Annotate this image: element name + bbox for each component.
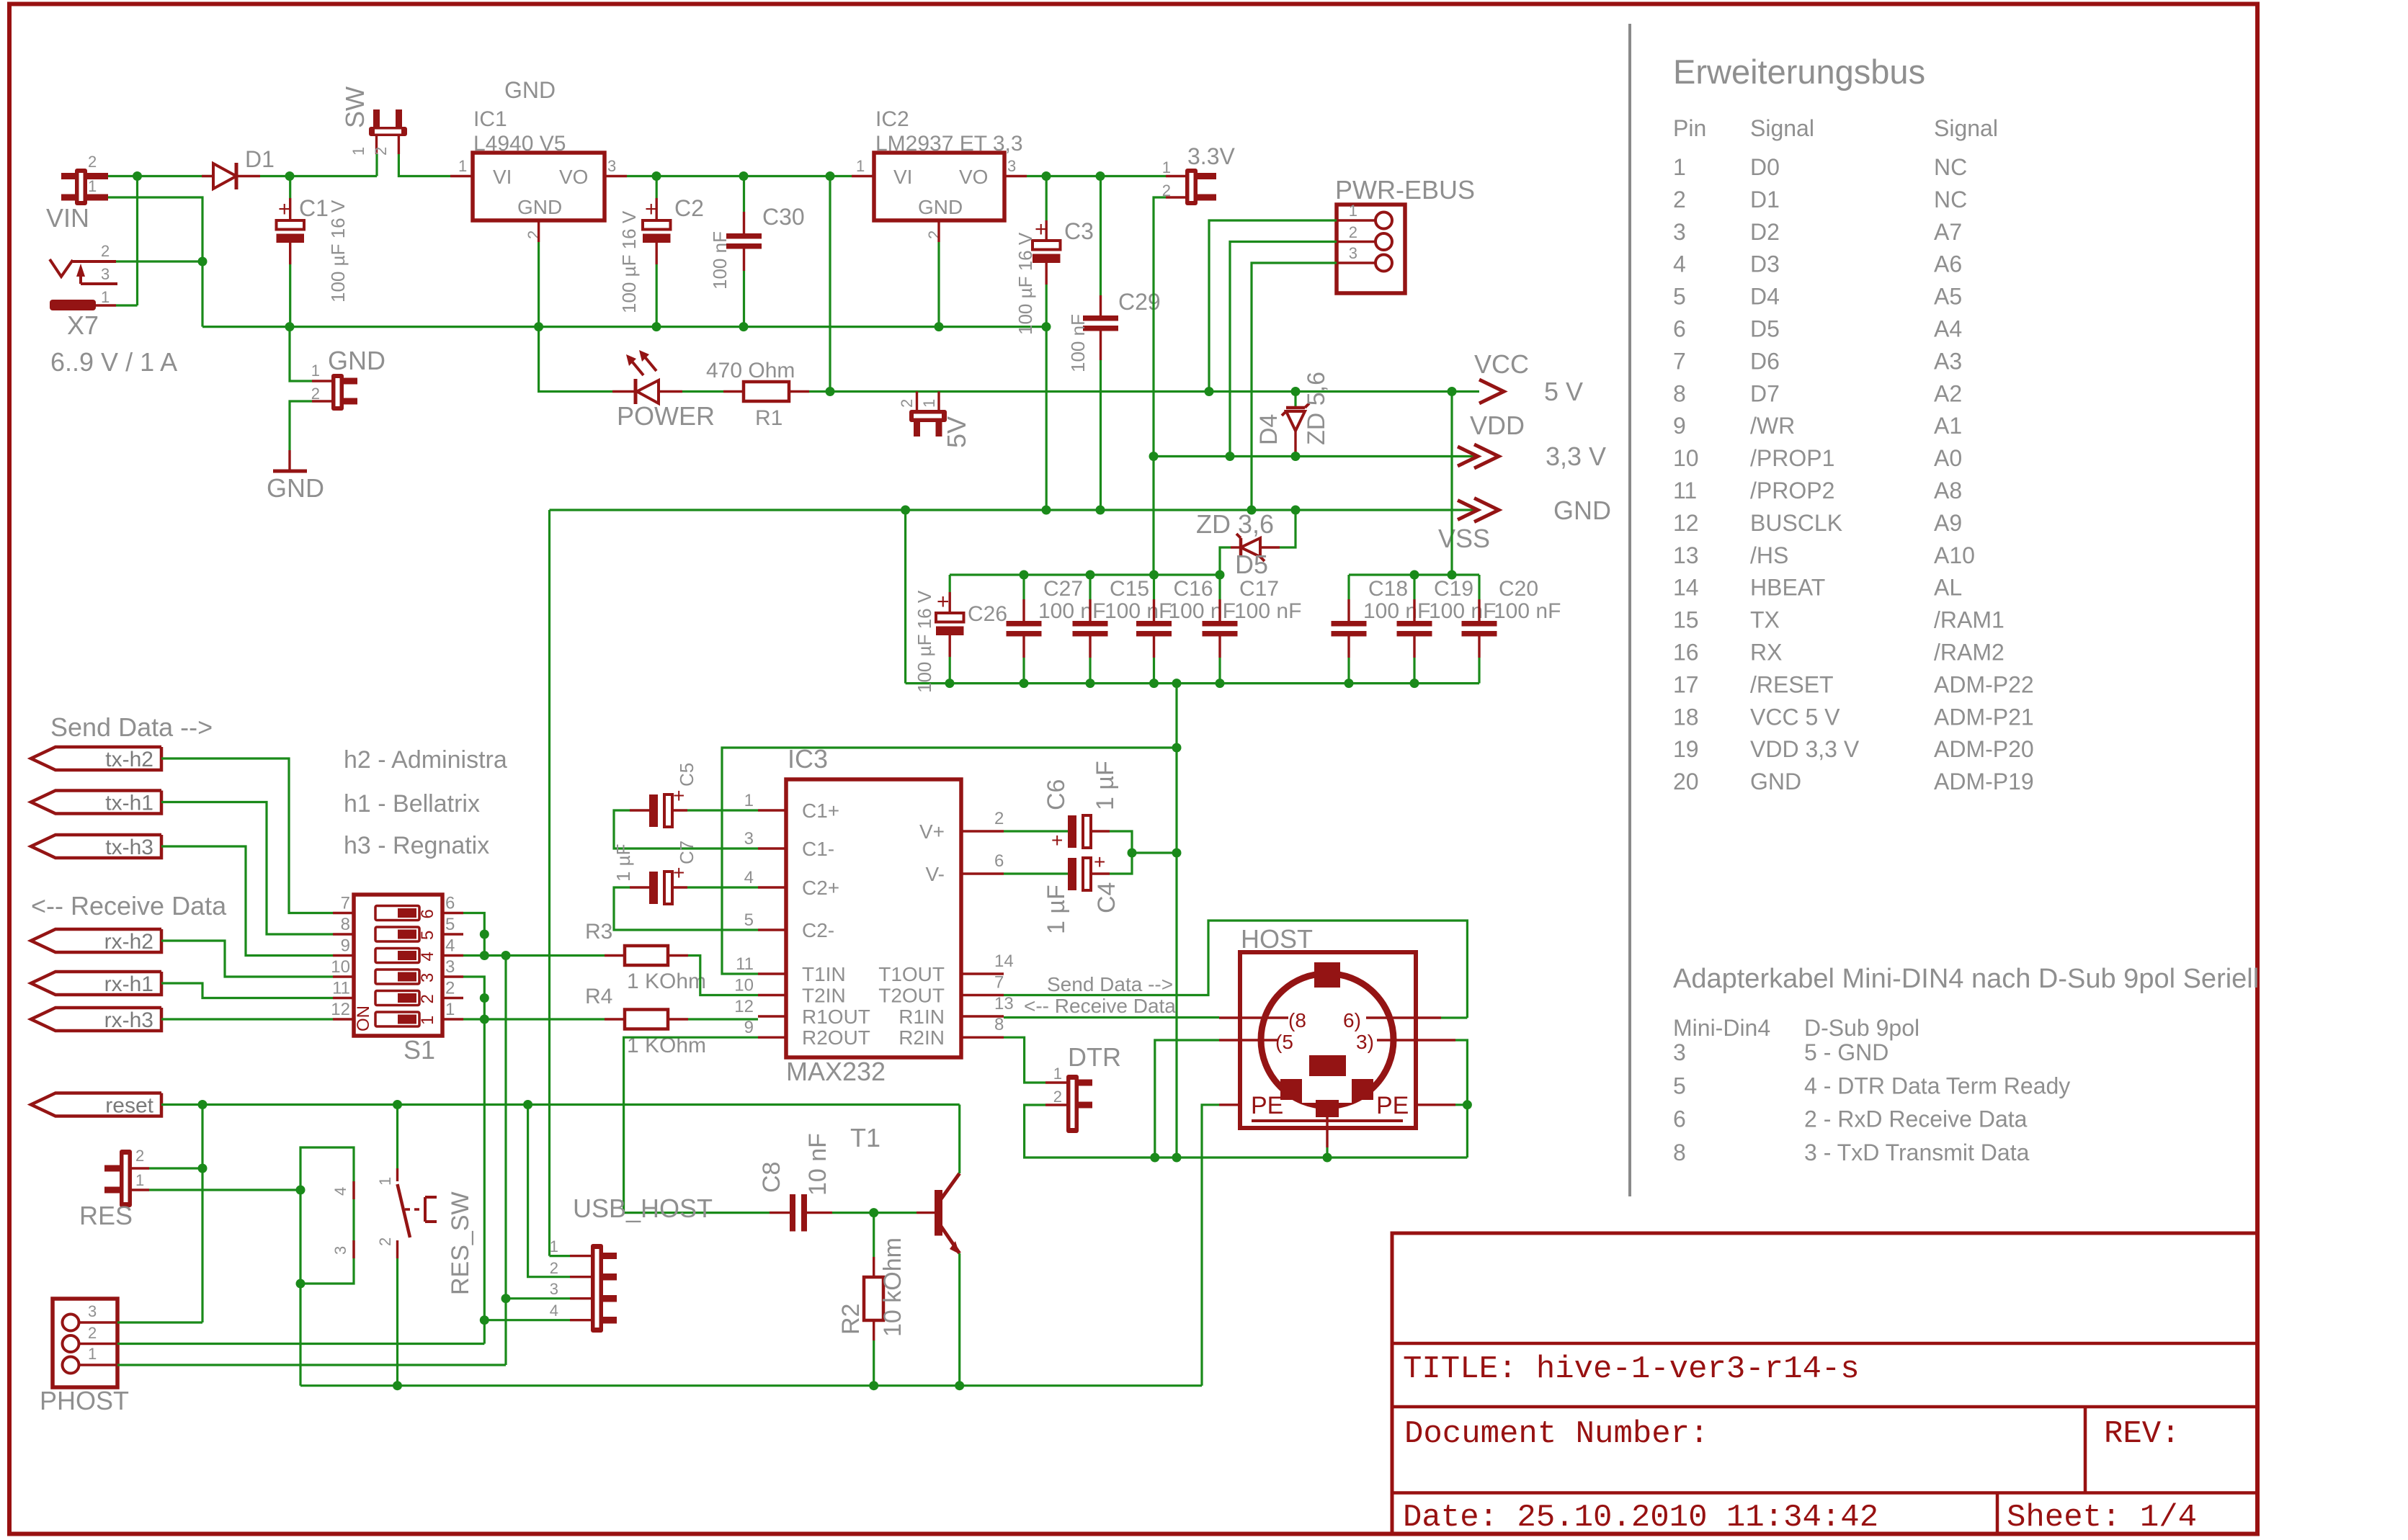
svg-text:C1+: C1+: [802, 800, 839, 822]
title block REV divider: [2084, 1407, 2087, 1493]
wire LED to R1: [682, 390, 723, 393]
svg-text:D5: D5: [1750, 316, 1780, 342]
svg-text:C17: C17: [1239, 577, 1279, 601]
svg-text:3: 3: [101, 265, 110, 283]
svg-text:C19: C19: [1434, 577, 1473, 601]
HOST bottom left pad: [1280, 1079, 1302, 1100]
node C29 top junction: [1096, 171, 1105, 181]
node V+ V- mid junction: [1128, 849, 1137, 858]
svg-text:5: 5: [1673, 284, 1686, 310]
node C3 rail junction: [1042, 322, 1051, 331]
svg-text:1: 1: [349, 147, 367, 156]
svg-text:8: 8: [1673, 380, 1686, 406]
resistor R1 470 Ohm: [723, 390, 744, 393]
svg-text:3: 3: [445, 957, 455, 977]
svg-text:C5: C5: [676, 763, 697, 787]
svg-text:HOST: HOST: [1241, 924, 1313, 954]
svg-text:1 µF: 1 µF: [1092, 761, 1119, 810]
capacitor C4 1uF: [1004, 872, 1068, 874]
net flag tx-h2: [31, 747, 161, 770]
IC2 pin 2 wire to GND rail: [937, 220, 940, 242]
svg-text:1: 1: [88, 177, 97, 195]
wire R2 top: [873, 1213, 875, 1257]
node X7 pin2 junction: [198, 257, 208, 267]
node cap top junction x1421: [1020, 570, 1029, 580]
svg-text:C8: C8: [758, 1162, 785, 1193]
svg-text:5 - GND: 5 - GND: [1804, 1039, 1889, 1065]
svg-text:100 µF 16 V: 100 µF 16 V: [1015, 232, 1036, 335]
svg-text:R1IN: R1IN: [898, 1006, 945, 1028]
svg-text:RES: RES: [79, 1201, 133, 1230]
wire DTR pin2 to GND: [1025, 1105, 1155, 1158]
svg-text:VI: VI: [893, 166, 912, 188]
svg-text:3: 3: [1673, 219, 1686, 245]
svg-text:rx-h1: rx-h1: [104, 972, 153, 996]
svg-text:3: 3: [418, 973, 437, 982]
node VIN-D1 junction: [133, 171, 142, 181]
svg-text:IC1: IC1: [473, 107, 507, 131]
svg-text:h3 - Regnatix: h3 - Regnatix: [344, 832, 489, 859]
svg-text:2: 2: [135, 1147, 144, 1165]
wire tx-h1 to S1 pin8: [161, 802, 333, 935]
node PWR-EBUS pin2 junction: [1226, 452, 1235, 461]
svg-text:2: 2: [1673, 187, 1686, 212]
svg-text:9: 9: [341, 936, 350, 956]
net flag reset: [31, 1093, 161, 1116]
svg-text:1: 1: [418, 1016, 437, 1025]
svg-text:Date: 25.10.2010 11:34:42: Date: 25.10.2010 11:34:42: [1403, 1500, 1878, 1536]
svg-text:+: +: [278, 197, 291, 221]
IC3 pin 14 T1OUT: [961, 972, 1004, 975]
connector RES: [104, 1165, 120, 1172]
svg-text:+: +: [1094, 851, 1105, 873]
svg-text:RX: RX: [1750, 640, 1782, 666]
svg-text:5 V: 5 V: [1544, 377, 1583, 406]
net flag rx-h3: [31, 1008, 161, 1031]
capacitor C30 100nF: [726, 233, 762, 239]
svg-text:3: 3: [1349, 244, 1357, 262]
connector PHOST: [53, 1299, 117, 1387]
svg-text:VDD 3,3 V: VDD 3,3 V: [1750, 736, 1860, 762]
svg-text:11: 11: [736, 954, 754, 974]
node T1 base junction: [869, 1208, 878, 1217]
svg-text:5: 5: [418, 931, 437, 940]
svg-text:A3: A3: [1934, 348, 1962, 374]
node HOST pin3 PE junction: [1463, 1100, 1472, 1109]
svg-text:100 nF: 100 nF: [1363, 599, 1430, 623]
wire PHOST pin1: [117, 1364, 506, 1366]
svg-text:3: 3: [331, 1246, 349, 1255]
svg-text:BUSCLK: BUSCLK: [1750, 510, 1842, 536]
svg-text:Signal: Signal: [1934, 115, 1998, 141]
svg-text:DTR: DTR: [1068, 1042, 1121, 1072]
svg-text:D4: D4: [1750, 284, 1780, 310]
svg-text:PE: PE: [1251, 1092, 1283, 1119]
svg-text:3): 3): [1356, 1031, 1374, 1053]
HOST bottom right pad: [1352, 1079, 1373, 1100]
node T1IN GND junction: [1172, 743, 1182, 753]
IC3 pin 13 R1IN: [961, 1015, 1004, 1017]
title block row line 3: [1392, 1491, 2257, 1495]
svg-text:2: 2: [1053, 1088, 1062, 1106]
svg-text:Signal: Signal: [1750, 115, 1814, 141]
LED POWER: [612, 390, 636, 393]
svg-text:C18: C18: [1368, 577, 1408, 601]
cap bank bottom GND rail: [906, 682, 1479, 684]
svg-text:(5: (5: [1275, 1031, 1293, 1053]
svg-text:5: 5: [445, 915, 455, 934]
wire IC1 out to IC2 in: [627, 175, 852, 177]
svg-text:C20: C20: [1499, 577, 1538, 601]
wire HOST pin5 to GND: [1155, 1040, 1219, 1158]
svg-text:ZD 5,6: ZD 5,6: [1303, 372, 1330, 445]
svg-text:R1OUT: R1OUT: [802, 1006, 870, 1028]
wire R3 to T2IN: [688, 956, 758, 995]
wire C6 to junction: [1110, 831, 1132, 853]
svg-text:2: 2: [418, 994, 437, 1003]
svg-text:/RESET: /RESET: [1750, 671, 1834, 697]
HOST top notch: [1314, 962, 1340, 988]
svg-text:100 µF 16 V: 100 µF 16 V: [327, 200, 349, 303]
svg-text:C16: C16: [1174, 577, 1213, 601]
svg-text:8: 8: [1673, 1140, 1686, 1165]
svg-text:A7: A7: [1934, 219, 1962, 245]
title block sheet divider: [1996, 1493, 1999, 1534]
node right cap group junction C19: [1410, 570, 1419, 580]
separator line: [1628, 24, 1631, 1196]
svg-text:A5: A5: [1934, 284, 1962, 310]
svg-text:RES_SW: RES_SW: [447, 1191, 474, 1295]
wire S1 tx common pins 6-5-4: [463, 913, 484, 956]
IC3 pin 10 T2IN: [758, 994, 786, 996]
svg-text:MAX232: MAX232: [786, 1057, 886, 1086]
wire LED anode from GND rail: [539, 327, 612, 392]
capacitor C6 1uF: [1004, 830, 1068, 832]
svg-text:6: 6: [1673, 1106, 1686, 1132]
HOST PE underline: [1252, 1119, 1403, 1122]
net flag tx-h3: [31, 835, 161, 858]
svg-text:VO: VO: [959, 166, 988, 188]
supply pin 5V: [916, 392, 918, 411]
wire S1 pin4 to R3: [463, 954, 605, 957]
svg-text:GND: GND: [517, 196, 562, 218]
HOST DIN ring: [1261, 974, 1393, 1106]
IC2 pin1 stub: [852, 175, 874, 177]
transistor T1: [874, 1212, 917, 1214]
svg-text:<-- Receive Data: <-- Receive Data: [1024, 995, 1176, 1017]
wire USB pin4: [484, 1319, 570, 1321]
svg-text:VIN: VIN: [46, 203, 89, 233]
wire PE bus down to GND horizontal: [1466, 1105, 1468, 1158]
svg-text:2: 2: [898, 399, 916, 408]
node cap bottom junction x1513: [1086, 679, 1095, 688]
node GND horizontal junction 1842: [1323, 1153, 1332, 1163]
svg-text:Adapterkabel Mini-DIN4 nach D-: Adapterkabel Mini-DIN4 nach D-Sub 9pol S…: [1673, 964, 2259, 994]
node R2 GND junction: [869, 1381, 878, 1390]
node GND horizontal junction 1633: [1172, 1153, 1182, 1163]
HOST pin6 line: [1366, 1016, 1441, 1019]
HOST pin8 line: [1219, 1016, 1288, 1019]
svg-text:5: 5: [1673, 1073, 1686, 1098]
svg-text:10: 10: [331, 957, 350, 977]
svg-text:TITLE: hive-1-ver3-r14-s: TITLE: hive-1-ver3-r14-s: [1403, 1351, 1860, 1387]
svg-text:R2: R2: [837, 1304, 865, 1335]
ground symbol: [288, 450, 290, 471]
svg-text:4 - DTR Data Term Ready: 4 - DTR Data Term Ready: [1804, 1073, 2070, 1098]
svg-text:1 µF: 1 µF: [612, 843, 634, 882]
svg-text:+: +: [1051, 829, 1063, 851]
svg-text:1: 1: [376, 1177, 394, 1186]
svg-text:16: 16: [1673, 640, 1699, 666]
svg-text:17: 17: [1673, 671, 1699, 697]
svg-text:h1 - Bellatrix: h1 - Bellatrix: [344, 790, 480, 818]
wire R2OUT down to C8: [624, 1037, 770, 1212]
svg-text:6: 6: [1673, 316, 1686, 342]
node VDD junction at 1601: [1149, 452, 1159, 461]
node PWR-EBUS pin1 junction: [1205, 387, 1214, 396]
GND horizontal under HOST: [1155, 1156, 1468, 1158]
IC1 pin3 stub: [605, 175, 627, 177]
svg-text:A10: A10: [1934, 542, 1975, 568]
capacitor C17 100nF: [1203, 621, 1238, 627]
bottom GND rail: [300, 1384, 1202, 1387]
node cap bottom junction x1318: [945, 679, 955, 688]
svg-text:C4: C4: [1093, 882, 1120, 913]
wire SW pin2 to IC1 pin1: [398, 154, 450, 176]
node D5 GND junction: [1291, 506, 1301, 515]
capacitor C5 1uF: [649, 794, 658, 827]
svg-text:NC: NC: [1934, 154, 1967, 180]
svg-text:D-Sub 9pol: D-Sub 9pol: [1804, 1015, 1919, 1041]
wire C1 junction to SW: [290, 175, 377, 177]
svg-text:C7: C7: [676, 841, 697, 864]
wire cap bank GND drop: [904, 510, 906, 684]
wire reset to RES pin2: [201, 1105, 203, 1323]
IC3 pin 4 C2+: [758, 886, 786, 888]
node IC2 GND junction: [935, 322, 944, 331]
wire R4 to R1OUT: [688, 1018, 758, 1020]
svg-text:A9: A9: [1934, 510, 1962, 536]
svg-text:1: 1: [1053, 1065, 1062, 1083]
wire PHOST pin2: [117, 1343, 484, 1345]
wire C7 to C2+ and C2-: [687, 886, 758, 888]
svg-text:R3: R3: [585, 920, 612, 944]
node reset junction USB: [523, 1100, 532, 1109]
svg-text:12: 12: [734, 997, 754, 1016]
VCC 5V rail: [830, 390, 1479, 393]
svg-text:Sheet: 1/4: Sheet: 1/4: [2007, 1500, 2197, 1536]
wire rx-h3 to S1 pin12: [161, 1018, 333, 1020]
svg-text:6..9 V / 1 A: 6..9 V / 1 A: [50, 347, 177, 377]
wire D1 to C1 junction: [260, 175, 290, 177]
node USB pin4 junction: [480, 1315, 489, 1325]
ground rail of regulators: [202, 326, 1046, 328]
svg-text:REV:: REV:: [2104, 1416, 2180, 1452]
svg-text:h2 - Administra: h2 - Administra: [344, 746, 507, 774]
svg-text:GND: GND: [1553, 496, 1611, 525]
svg-text:T1IN: T1IN: [802, 963, 846, 985]
svg-text:PWR-EBUS: PWR-EBUS: [1335, 175, 1475, 205]
net flag tx-h1: [31, 791, 161, 814]
RES_SW pin 4 stub: [352, 1181, 354, 1199]
wire S1 rx common pins 3-2-1: [463, 977, 484, 1019]
node cap bottom junction x1633: [1172, 679, 1182, 688]
wire C5 to C1+ and C1-: [687, 809, 758, 811]
svg-text:D1: D1: [245, 146, 275, 172]
cap bank top rail 3.3V: [950, 573, 1220, 576]
switch jumper SW: [373, 109, 380, 128]
svg-text:1: 1: [1162, 158, 1171, 176]
svg-text:T1: T1: [850, 1123, 880, 1152]
svg-text:tx-h1: tx-h1: [105, 792, 153, 815]
wire PWR-EBUS pin2: [1230, 242, 1337, 457]
svg-text:3: 3: [607, 157, 616, 175]
svg-text:VCC: VCC: [1474, 349, 1529, 379]
IC3 pin 8 R2IN: [961, 1036, 1004, 1038]
svg-text:GND: GND: [267, 473, 324, 503]
svg-text:/HS: /HS: [1750, 542, 1788, 568]
svg-text:GND: GND: [1750, 769, 1801, 794]
wire 3.3V output: [1027, 175, 1166, 177]
svg-text:/PROP2: /PROP2: [1750, 478, 1834, 503]
node tx common to USB junction: [501, 951, 511, 960]
svg-text:L4940 V5: L4940 V5: [473, 132, 566, 156]
svg-text:10 kOhm: 10 kOhm: [879, 1237, 906, 1337]
svg-text:4: 4: [418, 952, 437, 961]
svg-text:/RAM1: /RAM1: [1934, 607, 2005, 633]
wire T1 collector up to reset: [958, 1105, 960, 1174]
svg-text:11: 11: [332, 979, 350, 998]
net flag rx-h2: [31, 929, 161, 952]
svg-text:(8: (8: [1288, 1009, 1306, 1031]
svg-text:1: 1: [311, 362, 320, 380]
svg-text:VCC 5 V: VCC 5 V: [1750, 704, 1840, 730]
svg-text:C6: C6: [1043, 779, 1070, 810]
node D4 top junction: [1291, 387, 1301, 396]
svg-text:S1: S1: [403, 1035, 435, 1065]
svg-text:12: 12: [331, 1000, 350, 1019]
svg-text:C1: C1: [299, 195, 329, 221]
IC3 pin 9 R2OUT: [758, 1036, 786, 1038]
node GND vertical junction: [1172, 849, 1182, 858]
node right cap group junction feed: [1448, 570, 1457, 580]
node S1 pin5 junction: [480, 930, 489, 939]
wire 3.3V pin2 down to VDD rail: [1154, 197, 1166, 575]
svg-text:VI: VI: [493, 166, 512, 188]
svg-text:8: 8: [341, 915, 350, 934]
node C2 bottom junction: [652, 322, 661, 331]
svg-text:3: 3: [1673, 1039, 1686, 1065]
svg-text:1: 1: [856, 157, 865, 175]
resistor R2 10kOhm: [873, 1257, 875, 1277]
IC3 pin 1 C1+: [758, 809, 786, 811]
svg-text:100 nF: 100 nF: [1234, 599, 1301, 623]
HOST pin5 line: [1219, 1039, 1277, 1041]
IC3 pin 6 V-: [961, 872, 1004, 874]
resistor R4 1KOhm: [605, 1018, 625, 1020]
node USB pin3 junction: [501, 1294, 511, 1303]
wire GND rail corner down: [548, 510, 550, 1256]
svg-text:100 nF: 100 nF: [1169, 599, 1236, 623]
wire VIN pin2 to junction: [108, 175, 138, 177]
wire PE left to GND rail: [1219, 1103, 1240, 1106]
node cap top junction x1513: [1086, 570, 1095, 580]
IC3 pin 3 C1-: [758, 847, 786, 849]
wire mid junction to GND vertical: [1132, 851, 1177, 854]
svg-text:NC: NC: [1934, 187, 1967, 212]
node C30 bottom junction: [739, 322, 749, 331]
wire GND jumper pin2: [290, 401, 312, 450]
svg-text:/WR: /WR: [1750, 413, 1795, 439]
capacitor C18 100nF: [1332, 621, 1367, 627]
svg-text:ZD 3,6: ZD 3,6: [1196, 509, 1274, 539]
capacitor C15 100nF: [1073, 621, 1108, 627]
svg-text:ADM-P22: ADM-P22: [1934, 671, 2034, 697]
node RES_SW frame junction: [296, 1186, 306, 1195]
IC IC3 MAX232: [786, 779, 961, 1057]
svg-text:HBEAT: HBEAT: [1750, 575, 1825, 601]
title block outline: [1392, 1233, 2257, 1534]
diode D1: [202, 175, 213, 177]
wire HOST pin3 down: [1455, 1040, 1467, 1105]
wire R1IN receive data: [1004, 1016, 1219, 1019]
svg-text:4: 4: [331, 1187, 349, 1196]
svg-text:A4: A4: [1934, 316, 1962, 342]
svg-text:5V: 5V: [942, 416, 971, 448]
svg-text:GND: GND: [918, 196, 963, 218]
svg-text:2 - RxD Receive Data: 2 - RxD Receive Data: [1804, 1106, 2028, 1132]
svg-text:3: 3: [1007, 157, 1016, 175]
HOST pin3 line: [1377, 1039, 1455, 1041]
svg-text:2: 2: [376, 1237, 394, 1246]
node C30 top junction: [739, 171, 749, 181]
svg-text:D0: D0: [1750, 154, 1780, 180]
svg-text:4: 4: [550, 1302, 558, 1320]
connector PWR-EBUS: [1337, 205, 1405, 293]
svg-text:Send Data -->: Send Data -->: [1047, 973, 1173, 995]
svg-text:D5: D5: [1235, 550, 1268, 579]
svg-text:100 nF: 100 nF: [1067, 314, 1089, 372]
svg-text:11: 11: [1673, 478, 1697, 503]
svg-text:ON: ON: [354, 1006, 373, 1031]
svg-text:GND: GND: [328, 346, 385, 375]
svg-text:2: 2: [88, 1324, 97, 1342]
svg-text:/PROP1: /PROP1: [1750, 445, 1834, 471]
svg-text:2: 2: [994, 809, 1004, 828]
svg-text:A0: A0: [1934, 445, 1962, 471]
wire vertical pin1 to USB pin4: [483, 1019, 486, 1344]
zener diode D4 ZD 5,6: [1294, 392, 1296, 408]
svg-text:ADM-P20: ADM-P20: [1934, 736, 2034, 762]
wire junction to D1: [138, 175, 214, 177]
svg-text:3: 3: [744, 829, 754, 849]
svg-text:C15: C15: [1110, 577, 1149, 601]
svg-text:LM2937 ET 3,3: LM2937 ET 3,3: [875, 132, 1023, 156]
node C29 GND junction: [1096, 506, 1105, 515]
node cap top junction x1601: [1149, 570, 1159, 580]
svg-text:15: 15: [1673, 607, 1699, 633]
wire C4 to junction: [1110, 853, 1132, 874]
wire vertical pin4 to USB pin3: [504, 956, 507, 1299]
svg-text:<-- Receive Data: <-- Receive Data: [31, 891, 227, 921]
node C1 top junction: [285, 171, 295, 181]
wire USB pin3: [506, 1297, 570, 1299]
svg-text:1: 1: [101, 288, 110, 306]
wire rx-h1 to S1 pin11: [161, 983, 333, 998]
IC3 pin 12 R1OUT: [758, 1015, 786, 1017]
svg-text:19: 19: [1673, 736, 1699, 762]
svg-text:1: 1: [744, 791, 754, 810]
